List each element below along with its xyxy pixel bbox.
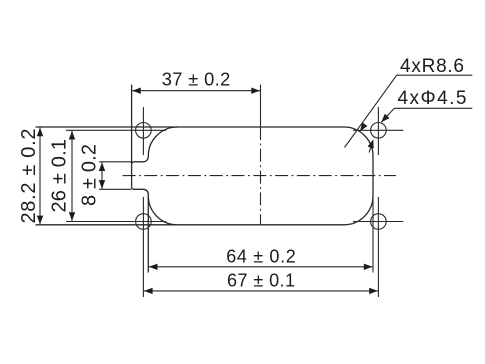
crosshair horizontal bottom-right hole: [353, 221, 403, 223]
svg-text:8 ± 0.2: 8 ± 0.2: [78, 144, 100, 206]
horizontal centerline (dash-dot): [123, 175, 397, 177]
cutout outline: bottom edge with 28.2-dim extension to left: [36, 224, 345, 226]
cutout outline: right edge: [372, 156, 374, 196]
svg-text:64 ± 0.2: 64 ± 0.2: [226, 247, 296, 267]
crosshair horizontal top-left hole, extends left as 26-dim extension: [66, 129, 166, 131]
cutout outline: corner arc R8.6 top-right: [344, 127, 373, 156]
dimension line 67±0.1: [143, 290, 378, 292]
8-dim extension line bottom: [99, 188, 132, 190]
dimension line 64±0.2: [148, 266, 373, 268]
cutout outline: corner arc R8.6 bottom-right: [344, 196, 373, 225]
leader line 4xR8.6 (underline + diagonal through corner arc): [345, 75, 473, 147]
cutout outline: left edge upper segment with fillet into notch: [143, 156, 148, 162]
37-dim right extension line upper solid part: [260, 85, 262, 127]
svg-text:67 ± 0.1: 67 ± 0.1: [227, 270, 295, 290]
dimension line 28.2±0.2: [39, 127, 41, 225]
cutout outline: left edge lower segment with fillet from notch, continues down as 64-dim extension line: [143, 189, 148, 272]
8-dim extension line top: [99, 161, 132, 163]
svg-text:26 ± 0.1: 26 ± 0.1: [48, 139, 70, 213]
svg-text:28.2 ± 0.2: 28.2 ± 0.2: [18, 129, 40, 224]
svg-text:4xΦ4.5: 4xΦ4.5: [398, 88, 467, 109]
crosshair vertical bottom-right hole, continues as 67-dim extension line: [377, 197, 379, 297]
dimension line 26±0.1: [71, 130, 73, 221]
svg-text:4xR8.6: 4xR8.6: [400, 56, 464, 77]
svg-text:37 ± 0.2: 37 ± 0.2: [162, 69, 231, 90]
hole 4.5mm bottom-left: [136, 214, 152, 230]
opposite diameter arrow below hole: [369, 143, 372, 153]
crosshair vertical top-left hole: [142, 107, 144, 155]
hole 4.5mm bottom-right: [371, 214, 387, 230]
cutout outline: corner arc R8.6 bottom-left: [148, 196, 177, 225]
leader arrow at hole top-right: [381, 114, 389, 123]
hole 4.5mm top-left: [136, 123, 152, 139]
crosshair vertical bottom-left hole, continues as 67-dim extension line: [142, 197, 144, 297]
leader line 4xΦ4.5 (underline + diagonal to hole): [381, 108, 472, 122]
leader arrow on corner arc: [360, 122, 368, 131]
dimension line 8±0.2: [101, 162, 103, 190]
dimension line 37±0.2: [132, 90, 261, 92]
notch: bottom edge: [132, 187, 144, 190]
hole 4.5mm top-right: [371, 123, 387, 139]
crosshair vertical top-right hole: [377, 107, 379, 155]
cutout outline: top edge with 28.2-dim extension to left: [36, 126, 345, 128]
notch: left edge (also 37-dim extension line above): [131, 85, 133, 187]
notch: top edge: [132, 162, 144, 165]
crosshair horizontal bottom-left hole, extends left as 26-dim extension: [66, 221, 166, 223]
64-dim extension line right (body right edge extended down): [372, 196, 374, 273]
cutout outline: corner arc R8.6 top-left: [148, 127, 177, 156]
vertical centerline (dash-dot), lower part of 37-dim right extension: [260, 127, 262, 225]
crosshair horizontal top-right hole: [353, 129, 403, 131]
